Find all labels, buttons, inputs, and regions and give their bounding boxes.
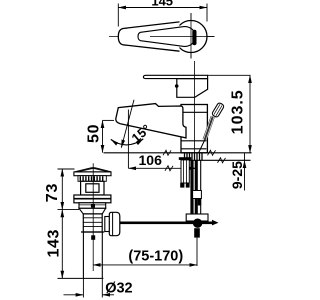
dimension 145 extension left: [117, 4, 119, 27]
body base line 1: [181, 140, 206, 142]
drain flange: [74, 195, 111, 203]
dimension (75-170) line: [93, 264, 197, 266]
centerline vertical top view: [190, 13, 192, 59]
svg-text:50: 50: [85, 124, 102, 143]
break mark 106 line: [165, 166, 173, 171]
rod lower wire: [196, 238, 198, 266]
body base line 2: [181, 148, 206, 150]
faucet centerline vertical: [194, 61, 196, 153]
dimension 143 line: [61, 210, 63, 279]
handle body circle (plan): [175, 21, 207, 53]
rod tip arrow: [212, 220, 219, 226]
svg-text:145: 145: [151, 0, 173, 9]
svg-text:103.5: 103.5: [230, 89, 247, 134]
drain flange midline: [74, 198, 111, 200]
stud block: [181, 160, 189, 183]
handle bar (side): [143, 75, 207, 78]
centerline horizontal top view: [109, 36, 215, 38]
svg-text:143: 143: [45, 229, 62, 258]
drain knurl band: [78, 176, 106, 182]
drain body dark detail: [91, 204, 95, 208]
rod clamp: [186, 214, 208, 221]
handle inner face (plan): [138, 27, 196, 47]
stream line arrow: [121, 142, 123, 148]
dimension 103.5 extension (handle top): [208, 74, 251, 76]
dimension 145 line: [118, 7, 207, 9]
pipe bottom / 143 extension line: [58, 277, 104, 279]
redraw centerlines over fills: [150, 36, 215, 38]
handle hub mark (plan): [192, 30, 196, 45]
dimension 50 extension: [103, 119, 115, 121]
drain cap pyramid: [75, 168, 112, 172]
tailpipe wall right: [101, 232, 103, 278]
dimension 145 extension right: [206, 4, 208, 22]
body (side): [181, 105, 207, 153]
stud foot right: [186, 183, 190, 188]
handle hub (side): [177, 79, 208, 98]
pop-up rod below deck: [200, 160, 202, 214]
drain lower body lines: [83, 217, 102, 219]
below-deck thread band: [185, 153, 203, 160]
drain lower body: [83, 214, 102, 232]
supply hose right: [195, 160, 198, 214]
break mark deck top 2: [208, 150, 216, 155]
drain coupling nut: [105, 217, 110, 232]
rod adjuster box: [193, 191, 202, 199]
dimension 73 extension top: [58, 168, 75, 170]
lift rod shaft (hatched): [205, 117, 213, 140]
stud foot left: [180, 183, 184, 188]
supply hose left: [190, 160, 193, 214]
mounting bracket dark: [179, 157, 192, 160]
svg-text:73: 73: [44, 183, 61, 202]
Dia 32 dim arrow right: [102, 294, 114, 296]
rod adjuster nub: [198, 199, 201, 206]
tailpipe joint dark: [91, 235, 95, 240]
nut inner line: [112, 212, 114, 235]
handle lever outline (plan): [118, 22, 179, 51]
drain cap brim: [74, 172, 111, 176]
dimension 50 line: [102, 120, 104, 152]
stud inner lines: [183, 160, 185, 183]
drain taper: [79, 208, 106, 214]
svg-text:9-25: 9-25: [229, 161, 245, 189]
15 degree arc: [111, 139, 144, 145]
15 degree vertical reference line: [127, 110, 129, 169]
lift rod lower wire: [199, 140, 205, 153]
hub left dark detail: [175, 84, 179, 88]
15 degree tilted stream line: [121, 100, 134, 148]
drain upper body: [79, 203, 106, 209]
svg-text:106: 106: [139, 152, 163, 168]
arc arrow left: [111, 140, 116, 144]
spout: [116, 104, 186, 138]
horizontal rod: [120, 222, 213, 225]
deck bottom line: [186, 159, 251, 161]
drain upper body line: [79, 204, 106, 206]
drain body bottom edge: [81, 231, 104, 233]
arc arrow right: [138, 139, 143, 143]
lift rod knob: [211, 102, 224, 118]
Dia 32 dim arrow left: [64, 294, 84, 296]
dimension 73 line: [61, 169, 63, 210]
rod ball joint: [193, 219, 202, 228]
svg-text:(75-170): (75-170): [128, 248, 183, 264]
rod lower threaded part: [194, 228, 200, 237]
dimension 73/143 shared extension: [58, 209, 80, 211]
dimension 9-25 arrow bottom: [244, 160, 246, 190]
deck top line: [104, 152, 252, 154]
nut head: [109, 212, 120, 235]
drain plug body: [81, 181, 104, 195]
dimension 103.5 line: [249, 75, 251, 153]
drain centerline: [92, 163, 94, 271]
body joint line: [181, 111, 207, 113]
svg-text:Ø32: Ø32: [105, 281, 132, 297]
dimension 106 line: [128, 167, 196, 169]
Dia 32 extension right: [101, 278, 103, 297]
Dia 32 extension left: [82, 278, 84, 297]
drain plug inner: [86, 184, 99, 193]
break mark deck bottom: [218, 158, 226, 163]
break mark deck top 1: [163, 150, 171, 155]
tailpipe wall left: [82, 232, 84, 278]
